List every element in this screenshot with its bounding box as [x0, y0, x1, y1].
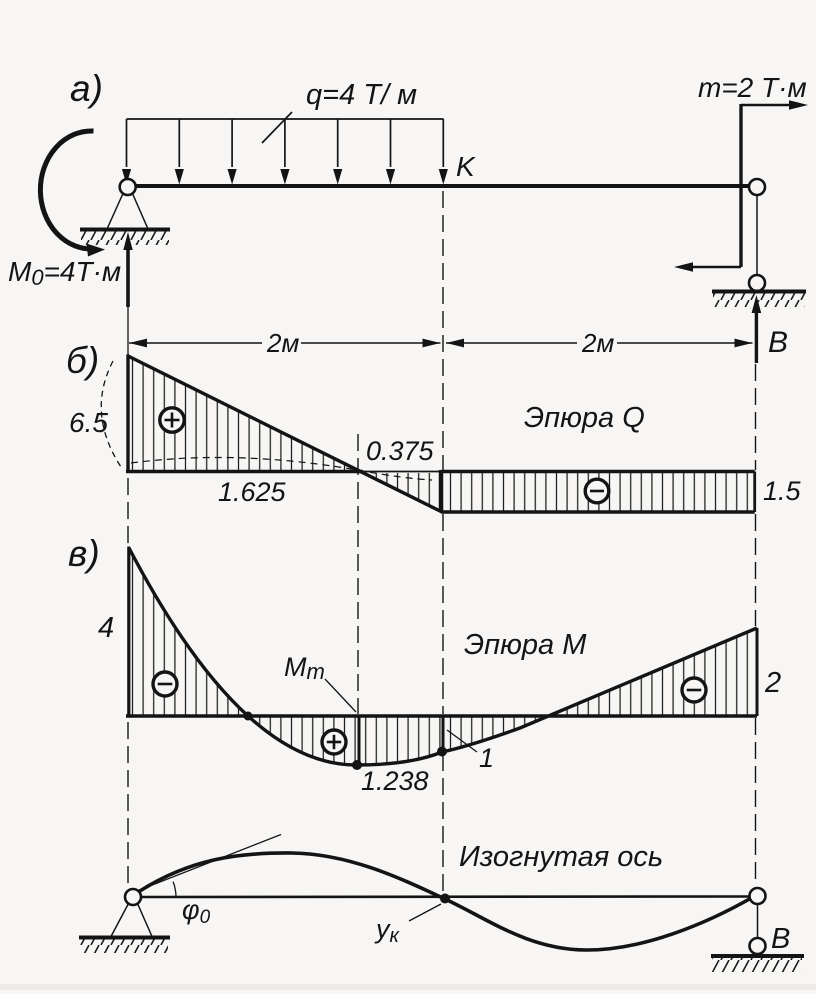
svg-text:0.375: 0.375 [366, 436, 435, 466]
svg-text:K: K [456, 151, 476, 182]
svg-text:q=4 Т/ м: q=4 Т/ м [306, 79, 417, 111]
reaction B arrow [752, 295, 762, 363]
construction dashed line x=358 [357, 434, 359, 714]
label 4 [98, 612, 114, 644]
label 1.5 [763, 476, 802, 506]
M diagram right negative region hatch [248, 628, 757, 765]
svg-text:1.5: 1.5 [763, 476, 802, 506]
dashed hint curve along Q axis [131, 457, 432, 480]
svg-text:б): б) [66, 340, 99, 381]
pin support at elastic line left [79, 889, 170, 953]
dimension labels 2m [266, 328, 614, 358]
label 1 with leader [447, 730, 494, 773]
right hinge circle on beam [749, 179, 765, 195]
pin support A [80, 179, 170, 245]
Q diagram negative wedge hatch [363, 473, 442, 511]
plus sign mid M [322, 730, 346, 754]
reaction A arrow [123, 232, 132, 356]
roller support at elastic line right [711, 888, 804, 972]
M diagram positive region hatch [248, 628, 757, 765]
svg-text:m=2 Т·м: m=2 Т·м [698, 72, 807, 103]
label yk with leader [374, 904, 441, 947]
beam [126, 184, 750, 188]
label Izognutaya os [459, 841, 663, 873]
M curve [129, 548, 757, 765]
angle arc phi0 [173, 882, 176, 897]
label b) [66, 340, 99, 381]
M baseline axis [126, 714, 757, 718]
svg-text:2м: 2м [581, 328, 614, 358]
Q baseline axis [126, 470, 441, 474]
svg-text:а): а) [70, 68, 103, 109]
label 0.375 [366, 436, 435, 466]
label B (scheme) [768, 326, 788, 359]
svg-text:1.625: 1.625 [218, 477, 287, 507]
deflected elastic curve [136, 853, 753, 950]
plus sign in Q [160, 408, 184, 432]
svg-text:1.238: 1.238 [361, 766, 429, 796]
label Mt with leader [284, 652, 356, 712]
dot at K on elastic line [440, 894, 450, 904]
faint scan shadow at bottom edge [0, 984, 816, 990]
Q negative rectangle border [441, 470, 755, 512]
svg-text:2м: 2м [266, 328, 299, 358]
Mt ordinate line [358, 716, 361, 765]
moment arc M0 at left support [40, 131, 105, 257]
label q=4 t/m with leader [262, 79, 417, 143]
minus sign right M [682, 678, 706, 702]
svg-text:4: 4 [98, 612, 114, 644]
svg-text:М0=4Т·м: М0=4Т·м [8, 256, 121, 290]
node K label [456, 151, 476, 182]
construction dashed line x=128 [127, 478, 129, 887]
Q sloping line [128, 356, 442, 512]
label B (elastic line) [771, 923, 790, 955]
M diagram left negative region hatch [130, 549, 248, 715]
distributed load arrows [122, 119, 448, 185]
svg-text:1: 1 [479, 743, 494, 773]
label Epyura Q [524, 402, 645, 434]
M left ordinate edge [127, 547, 130, 717]
tangent line at A [137, 835, 281, 892]
svg-text:Эпюра Q: Эпюра Q [524, 402, 645, 434]
label Epyura M [464, 629, 587, 661]
svg-text:в): в) [68, 533, 100, 574]
label M0=4t*m [8, 256, 121, 290]
dimension line 2m + 2m [129, 339, 753, 348]
minus sign in Q [585, 479, 609, 503]
moment m bracket at right end [674, 100, 808, 271]
label 1.238 [361, 766, 429, 796]
construction dashed line x=755.5 (support B) [755, 364, 757, 886]
label v) [68, 533, 100, 574]
label 1.625 [218, 477, 287, 507]
svg-text:Эпюра М: Эпюра М [464, 629, 587, 661]
distributed load q top line [127, 118, 444, 120]
K ordinate line in M [442, 716, 445, 752]
label 6.5 with dashed brace [69, 361, 121, 467]
elastic line axis [134, 895, 752, 898]
label m=2 t*m [698, 72, 807, 103]
Q diagram negative rectangle hatch [442, 473, 754, 511]
svg-text:B: B [771, 923, 790, 955]
Q diagram positive triangle hatch [130, 358, 359, 471]
label 2 [764, 667, 781, 699]
M right ordinate edge [756, 628, 759, 716]
svg-text:2: 2 [764, 667, 781, 699]
label a) [70, 68, 103, 109]
svg-text:B: B [768, 326, 788, 359]
node dots on M curve [244, 712, 448, 771]
label phi0 [182, 895, 211, 928]
roller circle support B [749, 275, 765, 291]
minus sign left M [153, 672, 177, 696]
construction dashed line x=443 (section K) [442, 191, 444, 894]
ground at support B [712, 292, 806, 308]
Q left ordinate edge [126, 355, 129, 472]
link rod to roller [756, 195, 758, 275]
svg-text:Изогнутая ось: Изогнутая ось [459, 841, 663, 873]
